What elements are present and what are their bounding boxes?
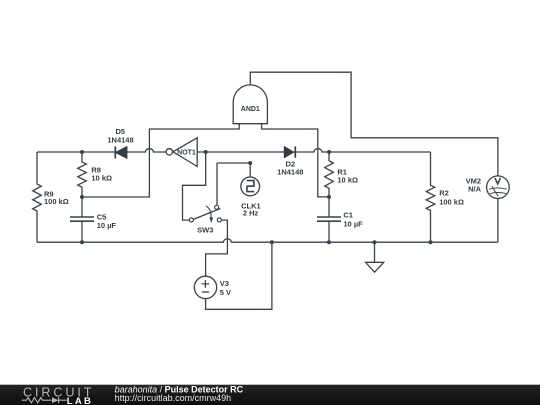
svg-text:5 V: 5 V: [220, 288, 231, 297]
svg-text:10 µF: 10 µF: [97, 221, 117, 230]
svg-text:SW3: SW3: [197, 225, 213, 234]
svg-text:AND1: AND1: [241, 106, 260, 113]
svg-text:10 µF: 10 µF: [343, 220, 363, 229]
svg-text:http://circuitlab.com/cmrw49h: http://circuitlab.com/cmrw49h: [115, 393, 232, 403]
svg-text:1N4148: 1N4148: [107, 135, 133, 144]
svg-text:100 kΩ: 100 kΩ: [44, 197, 69, 206]
svg-text:LAB: LAB: [67, 396, 93, 405]
svg-text:NOT1: NOT1: [177, 149, 196, 156]
svg-text:10 kΩ: 10 kΩ: [91, 174, 112, 183]
svg-text:100 kΩ: 100 kΩ: [439, 198, 464, 207]
svg-text:2 Hz: 2 Hz: [243, 209, 259, 218]
svg-text:R2: R2: [439, 188, 449, 197]
svg-text:10 kΩ: 10 kΩ: [337, 176, 358, 185]
svg-text:N/A: N/A: [468, 185, 482, 194]
svg-text:C1: C1: [343, 211, 353, 220]
svg-text:1N4148: 1N4148: [277, 167, 303, 176]
